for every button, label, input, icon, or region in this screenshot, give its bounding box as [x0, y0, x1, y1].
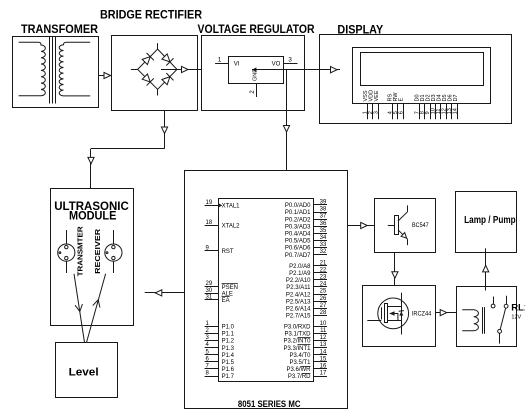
svg-text:P2.5/A13: P2.5/A13 — [286, 299, 311, 305]
svg-text:TRANSFOMER: TRANSFOMER — [21, 22, 98, 36]
svg-text:P1.0: P1.0 — [222, 325, 235, 331]
svg-text:36: 36 — [320, 221, 327, 227]
svg-text:3: 3 — [374, 111, 380, 114]
svg-text:10: 10 — [320, 321, 327, 327]
svg-text:EA: EA — [222, 298, 230, 304]
svg-text:15: 15 — [320, 356, 327, 362]
svg-text:RST: RST — [222, 249, 234, 255]
svg-text:P0.3/AD3: P0.3/AD3 — [285, 224, 311, 230]
svg-text:P0.5/AD5: P0.5/AD5 — [285, 239, 311, 245]
svg-text:31: 31 — [206, 294, 213, 300]
svg-text:PSEN: PSEN — [222, 285, 238, 291]
svg-text:P3.1/TXD: P3.1/TXD — [284, 332, 311, 338]
svg-text:RECEIVER: RECEIVER — [93, 228, 102, 274]
svg-text:P1.1: P1.1 — [222, 332, 235, 338]
svg-text:P3.6/WR: P3.6/WR — [286, 367, 311, 373]
svg-text:P0.2/AD2: P0.2/AD2 — [285, 217, 311, 223]
svg-text:P3.0/RXD: P3.0/RXD — [284, 325, 311, 331]
svg-text:P1.4: P1.4 — [222, 353, 235, 359]
svg-text:P0.6/AD6: P0.6/AD6 — [285, 246, 311, 252]
svg-text:P2.6/A14: P2.6/A14 — [286, 307, 311, 313]
svg-text:29: 29 — [206, 281, 213, 287]
svg-text:14: 14 — [320, 349, 327, 355]
svg-text:P1.7: P1.7 — [222, 374, 235, 380]
svg-text:1: 1 — [218, 57, 222, 64]
svg-text:Lamp / Pump: Lamp / Pump — [464, 214, 516, 226]
svg-text:32: 32 — [320, 249, 327, 255]
svg-text:27: 27 — [320, 303, 327, 309]
svg-text:P1.6: P1.6 — [222, 367, 235, 373]
svg-text:39: 39 — [320, 200, 327, 206]
svg-text:P3.3/INT1: P3.3/INT1 — [283, 346, 311, 352]
svg-text:VI: VI — [234, 61, 240, 67]
svg-text:19: 19 — [206, 200, 213, 206]
svg-text:P0.7/AD7: P0.7/AD7 — [285, 253, 311, 259]
svg-text:Level: Level — [69, 367, 99, 379]
svg-text:E: E — [399, 98, 405, 102]
svg-text:P0.1/AD1: P0.1/AD1 — [285, 210, 311, 216]
svg-text:VEE: VEE — [374, 90, 380, 101]
svg-text:DISPLAY: DISPLAY — [337, 22, 383, 36]
svg-text:P3.4/T0: P3.4/T0 — [289, 353, 311, 359]
svg-text:P2.3/A11: P2.3/A11 — [286, 285, 311, 291]
svg-text:14: 14 — [452, 108, 458, 114]
svg-text:24: 24 — [320, 282, 327, 288]
svg-text:GND: GND — [253, 69, 259, 81]
svg-text:BRIDGE RECTIFIER: BRIDGE RECTIFIER — [100, 7, 202, 21]
svg-text:26: 26 — [320, 296, 327, 302]
svg-text:RL1: RL1 — [511, 303, 525, 314]
svg-text:30: 30 — [206, 288, 213, 294]
svg-text:11: 11 — [320, 328, 327, 334]
svg-text:22: 22 — [320, 267, 327, 273]
svg-text:XTAL2: XTAL2 — [222, 224, 241, 230]
svg-text:MODULE: MODULE — [69, 211, 117, 223]
svg-text:BC547: BC547 — [412, 222, 429, 229]
svg-text:TRANSMTER: TRANSMTER — [76, 226, 85, 277]
svg-text:25: 25 — [320, 289, 327, 295]
svg-text:35: 35 — [320, 228, 327, 234]
svg-text:13: 13 — [320, 342, 327, 348]
svg-text:18: 18 — [206, 220, 213, 226]
svg-text:12: 12 — [320, 335, 327, 341]
svg-text:12V: 12V — [511, 314, 521, 320]
svg-text:IRCZ44: IRCZ44 — [412, 311, 432, 318]
svg-text:VOLTAGE REGULATOR: VOLTAGE REGULATOR — [198, 22, 315, 36]
svg-text:P2.7/A15: P2.7/A15 — [286, 314, 311, 320]
svg-text:D7: D7 — [453, 94, 459, 101]
svg-text:P1.3: P1.3 — [222, 346, 235, 352]
svg-text:3: 3 — [288, 57, 292, 64]
svg-text:21: 21 — [320, 260, 327, 266]
svg-text:P2.4/A12: P2.4/A12 — [286, 292, 311, 298]
svg-text:P2.1/A9: P2.1/A9 — [289, 271, 311, 277]
svg-text:P1.5: P1.5 — [222, 360, 235, 366]
svg-text:P1.2: P1.2 — [222, 339, 235, 345]
svg-text:34: 34 — [320, 235, 327, 241]
svg-text:33: 33 — [320, 242, 327, 248]
svg-text:28: 28 — [320, 310, 327, 316]
svg-text:XTAL1: XTAL1 — [222, 204, 241, 210]
svg-text:38: 38 — [320, 207, 327, 213]
svg-text:23: 23 — [320, 275, 327, 281]
svg-text:VO: VO — [272, 61, 281, 67]
svg-text:P3.7/RD: P3.7/RD — [288, 374, 311, 380]
svg-text:17: 17 — [320, 371, 327, 377]
svg-text:37: 37 — [320, 214, 327, 220]
svg-text:6: 6 — [398, 111, 404, 114]
svg-text:16: 16 — [320, 364, 327, 370]
svg-text:P0.0/AD0: P0.0/AD0 — [285, 203, 311, 209]
svg-text:P2.0/A8: P2.0/A8 — [289, 264, 311, 270]
svg-text:P3.5/T1: P3.5/T1 — [289, 360, 311, 366]
svg-text:P2.2/A10: P2.2/A10 — [286, 278, 311, 284]
svg-text:P0.4/AD4: P0.4/AD4 — [285, 232, 311, 238]
svg-text:P3.2/INT0: P3.2/INT0 — [283, 339, 311, 345]
